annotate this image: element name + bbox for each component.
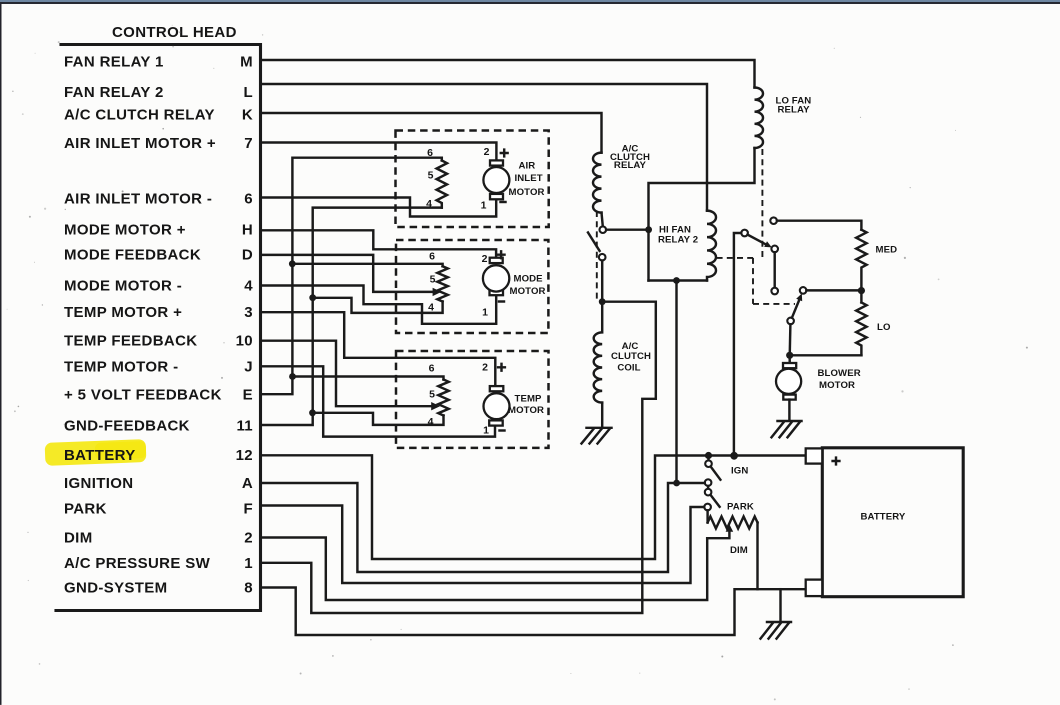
svg-text:MOTOR: MOTOR <box>509 187 545 198</box>
wire M FAN RELAY 1 to LO fan relay coil <box>261 60 755 88</box>
wire LO resistor to blower motor <box>790 354 862 356</box>
svg-text:12: 12 <box>236 447 253 464</box>
svg-text:GND-FEEDBACK: GND-FEEDBACK <box>64 418 190 435</box>
wire pin 2 DIM riser <box>261 538 708 601</box>
svg-text:MODE MOTOR -: MODE MOTOR - <box>64 278 182 295</box>
switch IGN <box>707 456 709 461</box>
svg-text:4: 4 <box>428 302 434 314</box>
resistor air inlet pot <box>437 161 447 208</box>
wire pin 8 GND-SYSTEM to battery - terminal <box>261 588 806 636</box>
svg-text:PARK: PARK <box>64 501 107 518</box>
svg-text:L: L <box>243 84 253 101</box>
junction A/C coil node <box>599 298 606 305</box>
svg-text:2: 2 <box>482 362 488 374</box>
battery <box>822 448 963 597</box>
resistor mode pot <box>437 266 447 301</box>
wire pin J to temp motor - <box>261 366 496 436</box>
svg-text:3: 3 <box>244 304 253 321</box>
switch A/C clutch relay blade <box>588 233 600 251</box>
junction gnd rail temp pot <box>309 409 316 416</box>
svg-text:LO: LO <box>877 322 891 333</box>
junction +5 rail temp pot <box>289 373 296 380</box>
svg-text:1: 1 <box>483 425 489 437</box>
svg-text:4: 4 <box>428 416 434 428</box>
svg-text:MODE MOTOR +: MODE MOTOR + <box>64 222 186 239</box>
gnd feedback rail pin 11 with air pot bottom <box>261 208 442 425</box>
+5V feedback rail pin E with air pot top <box>261 158 442 395</box>
svg-text:MOTOR: MOTOR <box>508 405 544 416</box>
svg-text:6: 6 <box>427 147 433 159</box>
air inlet motor <box>490 160 503 165</box>
svg-text:CLUTCH: CLUTCH <box>611 351 651 362</box>
svg-text:8: 8 <box>244 580 253 597</box>
junction IGN feed <box>705 452 712 459</box>
wire pin 3 to temp motor + <box>261 312 496 386</box>
dashed enclosure AIR INLET MOTOR <box>396 131 549 228</box>
svg-text:1: 1 <box>482 307 488 319</box>
control head connector box <box>56 45 261 611</box>
svg-text:H: H <box>242 222 253 239</box>
wire C1 to MED resistor <box>777 221 862 230</box>
blower motor <box>788 355 790 363</box>
svg-text:7: 7 <box>244 135 253 152</box>
mode wiper arrow <box>433 288 442 296</box>
temp wiper arrow <box>431 402 440 410</box>
junction gnd rail mode pot <box>309 294 316 301</box>
wire pin 12 BATTERY to battery + terminal <box>261 455 806 559</box>
svg-text:+ 5 VOLT FEEDBACK: + 5 VOLT FEEDBACK <box>64 387 222 404</box>
svg-text:TEMP FEEDBACK: TEMP FEEDBACK <box>64 333 197 350</box>
junction blower feed on rail <box>730 452 738 460</box>
resistor DIM dimmer <box>708 517 758 529</box>
wire pin 4 to mode motor - <box>261 286 497 324</box>
svg-text:CONTROL HEAD: CONTROL HEAD <box>112 24 237 41</box>
dashed enclosure MODE MOTOR <box>396 240 548 333</box>
svg-text:AIR INLET MOTOR +: AIR INLET MOTOR + <box>64 135 216 152</box>
mode motor <box>490 258 503 263</box>
wire relay lower contact to A/C coil node <box>601 261 603 302</box>
svg-text:5: 5 <box>429 389 435 401</box>
relay coil LO FAN RELAY <box>755 88 764 149</box>
blade blower to C5 with arrow <box>792 301 799 318</box>
switch PARK <box>707 486 709 489</box>
wire pin F PARK to PARK switch <box>261 506 705 584</box>
wire blade to blower junction <box>789 324 792 352</box>
mechanical link dashed fan relay contacts <box>717 149 795 304</box>
svg-text:4: 4 <box>244 278 253 295</box>
mechanical link dashed A/C clutch relay <box>596 211 598 299</box>
mode pot bottom wire <box>313 298 443 313</box>
wire C5 to resistor junction <box>806 289 857 291</box>
svg-text:6: 6 <box>429 363 435 375</box>
junction MED LO resistors <box>858 287 865 294</box>
svg-text:GND-SYSTEM: GND-SYSTEM <box>64 580 168 597</box>
mode pot top wire <box>292 264 442 267</box>
svg-text:TEMP MOTOR +: TEMP MOTOR + <box>64 304 182 321</box>
svg-text:MOTOR: MOTOR <box>819 380 855 391</box>
svg-text:PARK: PARK <box>727 501 754 512</box>
wire LO fan coil bottom to relay bus <box>649 148 755 281</box>
wire pin 6 to air inlet motor - <box>261 198 497 217</box>
blade C2 to C3 with arrow <box>748 235 766 245</box>
wire HI fan relay bottom to ignition node <box>675 281 677 484</box>
svg-text:DIM: DIM <box>64 530 93 547</box>
ground blower motor <box>772 421 802 437</box>
svg-text:A/C CLUTCH RELAY: A/C CLUTCH RELAY <box>64 107 215 124</box>
wire pin 1 A/C PRESSURE SW to clutch circuit <box>261 302 656 613</box>
wire pin 10 to temp pot wiper <box>261 341 432 407</box>
wire pin A IGNITION to IGN switch <box>261 483 705 572</box>
wire pin H to mode motor + <box>261 230 497 257</box>
resistor temp pot <box>438 380 448 416</box>
svg-text:D: D <box>242 247 253 264</box>
wire DIM wiper to pin 2 <box>707 531 729 538</box>
svg-text:COIL: COIL <box>617 362 640 373</box>
svg-text:AIR: AIR <box>519 161 536 172</box>
svg-text:M: M <box>240 54 253 71</box>
switch A/C clutch relay contact top <box>600 226 607 233</box>
temp pot top wire <box>293 377 444 380</box>
wire HI fan relay coil bottom <box>649 279 708 281</box>
DIM wiper arrow <box>726 524 734 531</box>
wire A/C coil to ground <box>601 403 603 427</box>
switch A/C clutch relay contact bottom <box>599 254 606 261</box>
svg-text:AIR INLET MOTOR -: AIR INLET MOTOR - <box>64 191 212 208</box>
contact C5 LO <box>800 287 807 294</box>
wire relay contact to bus <box>606 228 648 230</box>
svg-text:K: K <box>242 107 253 124</box>
junction contact bus <box>645 226 652 233</box>
wire pin D to mode pot wiper <box>261 255 433 292</box>
svg-text:1: 1 <box>244 555 253 572</box>
ground battery <box>761 622 792 639</box>
svg-text:MOTOR: MOTOR <box>510 286 546 297</box>
resistor LO <box>856 291 866 356</box>
wire L FAN RELAY 2 to HI fan relay coil <box>261 84 708 211</box>
wire blower switch feed from battery rail <box>734 233 741 453</box>
svg-text:IGN: IGN <box>731 465 748 476</box>
resistor MED <box>856 230 866 287</box>
svg-text:TEMP MOTOR -: TEMP MOTOR - <box>64 359 178 376</box>
svg-text:TEMP: TEMP <box>515 394 543 405</box>
junction HI fan relay bottom <box>673 277 680 284</box>
svg-text:6: 6 <box>429 251 435 263</box>
svg-text:2: 2 <box>484 146 490 158</box>
wire DIM resistor end to battery minus <box>756 523 758 590</box>
page left edge line <box>0 4 2 705</box>
svg-text:6: 6 <box>244 191 253 208</box>
wire K to A/C clutch relay coil <box>261 113 602 153</box>
svg-text:BATTERY: BATTERY <box>861 512 906 523</box>
wire blower to ground <box>788 400 790 421</box>
contact C3 <box>771 246 778 253</box>
svg-text:2: 2 <box>244 530 253 547</box>
svg-text:DIM: DIM <box>730 545 748 556</box>
wire battery minus to ground <box>779 589 781 621</box>
svg-text:FAN RELAY 1: FAN RELAY 1 <box>64 54 164 71</box>
svg-text:A/C PRESSURE SW: A/C PRESSURE SW <box>64 555 211 572</box>
svg-text:BATTERY: BATTERY <box>64 447 136 464</box>
svg-text:MODE FEEDBACK: MODE FEEDBACK <box>64 247 201 264</box>
svg-text:10: 10 <box>236 333 253 350</box>
svg-text:4: 4 <box>426 198 432 210</box>
contact C4 HI <box>771 288 778 295</box>
wire pin 7 to air inlet motor + <box>261 143 497 161</box>
wire coil to contact <box>602 213 603 227</box>
svg-text:5: 5 <box>430 274 436 286</box>
svg-text:BLOWER: BLOWER <box>818 368 861 379</box>
blower blade contact <box>787 318 794 325</box>
ground A/C clutch coil <box>582 428 612 444</box>
svg-text:RELAY: RELAY <box>614 160 647 171</box>
temp pot bottom wire <box>313 413 444 425</box>
battery highlight marker <box>45 439 147 466</box>
svg-text:F: F <box>243 501 253 518</box>
svg-text:E: E <box>243 387 253 404</box>
relay coil HI FAN RELAY 2 <box>707 211 716 281</box>
svg-text:A: A <box>242 475 253 492</box>
svg-text:FAN RELAY 2: FAN RELAY 2 <box>64 84 164 101</box>
wire PARK contact to dimmer <box>706 510 708 522</box>
contact C1 MED feed <box>770 217 777 224</box>
svg-text:RELAY: RELAY <box>778 105 811 116</box>
coil A/C CLUTCH COIL <box>594 302 603 403</box>
svg-text:2: 2 <box>482 253 488 265</box>
junction blower feed <box>786 352 793 359</box>
svg-text:RELAY 2: RELAY 2 <box>658 234 698 245</box>
junction +5 rail mode pot <box>289 260 296 267</box>
svg-text:MED: MED <box>876 245 898 256</box>
svg-text:J: J <box>244 359 253 376</box>
relay coil A/C CLUTCH RELAY <box>593 153 602 213</box>
svg-text:1: 1 <box>481 200 487 212</box>
temp motor <box>490 386 504 391</box>
wire C3 to C4 <box>773 252 775 288</box>
page top border band <box>0 0 1060 2</box>
svg-text:11: 11 <box>236 418 253 435</box>
svg-text:IGNITION: IGNITION <box>64 475 133 492</box>
contact C2 common feed <box>741 230 748 237</box>
svg-text:INLET: INLET <box>515 173 543 184</box>
svg-text:5: 5 <box>428 170 434 182</box>
dashed enclosure TEMP MOTOR <box>396 351 549 448</box>
battery plus mark <box>833 458 840 465</box>
svg-text:MODE: MODE <box>514 274 544 285</box>
junction ignition node <box>673 480 680 487</box>
